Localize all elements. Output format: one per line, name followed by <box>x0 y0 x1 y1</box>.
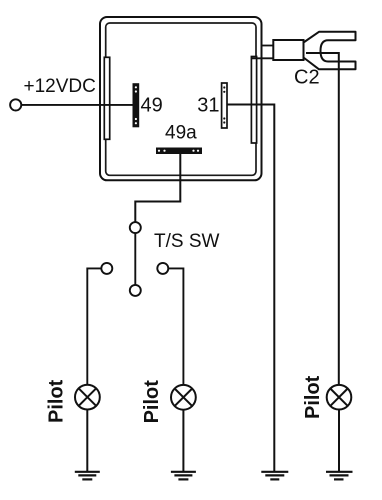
pilot lamp L1 <box>75 385 100 410</box>
wire terminal 31 to ground drop <box>227 105 274 472</box>
svg-text:C2: C2 <box>294 67 320 89</box>
flasher relay unit outer case <box>100 17 262 180</box>
switch T/S SW <box>101 222 168 296</box>
pilot lamp L3 <box>327 385 352 410</box>
svg-text:49a: 49a <box>165 123 197 144</box>
connector C2 barrel <box>273 40 303 60</box>
ground G1 <box>75 472 100 480</box>
switch arm end contact <box>130 285 141 296</box>
svg-text:Pilot: Pilot <box>141 380 163 424</box>
ground G3 (terminal 31 drop) <box>261 472 288 480</box>
wire C2 to pilot lamp L3 <box>306 53 339 385</box>
wire pilot lamp L3 to ground <box>338 409 340 471</box>
terminal 49 <box>133 83 140 127</box>
switch right throw contact <box>157 263 168 274</box>
switch common contact <box>130 222 141 233</box>
svg-text:49: 49 <box>141 95 163 117</box>
ground G4 <box>326 472 353 480</box>
svg-text:Pilot: Pilot <box>302 375 324 419</box>
switch arm <box>134 234 136 285</box>
svg-text:T/S SW: T/S SW <box>154 231 220 252</box>
switch left throw contact <box>101 263 112 274</box>
svg-text:Pilot: Pilot <box>46 379 68 423</box>
wire pilot lamp L2 to ground <box>182 409 184 471</box>
svg-text:31: 31 <box>197 95 219 117</box>
wire pilot lamp L1 to ground <box>86 409 88 472</box>
svg-text:+12VDC: +12VDC <box>24 76 96 97</box>
connector C2 fork blade <box>304 32 356 70</box>
wire 49a to switch common <box>135 154 180 222</box>
wire relay to connector C2 upper <box>262 45 275 47</box>
wire +12VDC to terminal 49 <box>21 104 132 106</box>
wire switch left throw to pilot lamp L1 <box>87 268 101 385</box>
right terminal pad <box>251 57 256 144</box>
wire switch right throw to pilot lamp L2 <box>169 268 184 385</box>
left terminal pad <box>104 57 109 139</box>
wire relay to connector C2 lower <box>252 57 275 59</box>
ground G2 <box>171 472 196 480</box>
+12VDC input terminal <box>10 99 21 110</box>
terminal 49a <box>156 148 202 155</box>
flasher relay unit inner case <box>106 23 256 175</box>
pilot lamp L2 <box>171 385 196 410</box>
terminal 31 <box>222 83 227 128</box>
